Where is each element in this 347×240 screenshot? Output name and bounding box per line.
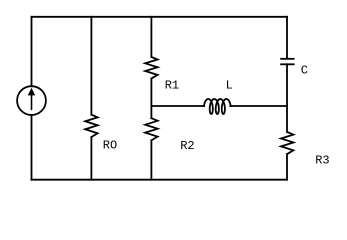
resistor R2 <box>145 118 157 140</box>
wire right branch top <box>286 17 288 58</box>
wire R0 branch bottom <box>90 137 92 180</box>
resistor R3 <box>281 132 293 154</box>
wire R1 to node <box>150 79 152 119</box>
wire R1 branch top <box>150 17 152 57</box>
resistor R1 <box>145 57 157 79</box>
wire middle horizontal right of inductor <box>230 105 287 107</box>
wire R2 bottom <box>150 140 152 179</box>
current source I1 circle <box>17 86 46 115</box>
wire top horizontal <box>32 16 288 18</box>
current source arrow shaft <box>31 95 33 110</box>
svg-text:C: C <box>301 64 308 78</box>
current source arrowhead <box>29 89 35 95</box>
wire middle horizontal left of inductor <box>151 105 204 107</box>
capacitor C bottom plate <box>281 63 294 65</box>
resistor R0 <box>85 115 97 137</box>
svg-text:R1: R1 <box>165 79 179 93</box>
wire left branch below source <box>31 115 33 180</box>
wire bottom horizontal <box>32 179 288 181</box>
svg-text:L: L <box>226 79 233 93</box>
svg-text:R3: R3 <box>315 154 329 168</box>
wire R0 branch top <box>90 17 92 115</box>
wire cap to R3 <box>286 64 288 132</box>
svg-text:R2: R2 <box>180 139 194 153</box>
wire R3 bottom <box>286 154 288 180</box>
svg-text:RO: RO <box>103 139 117 153</box>
inductor L <box>204 99 231 114</box>
capacitor C top plate <box>281 58 294 60</box>
wire left branch above source <box>31 17 33 86</box>
